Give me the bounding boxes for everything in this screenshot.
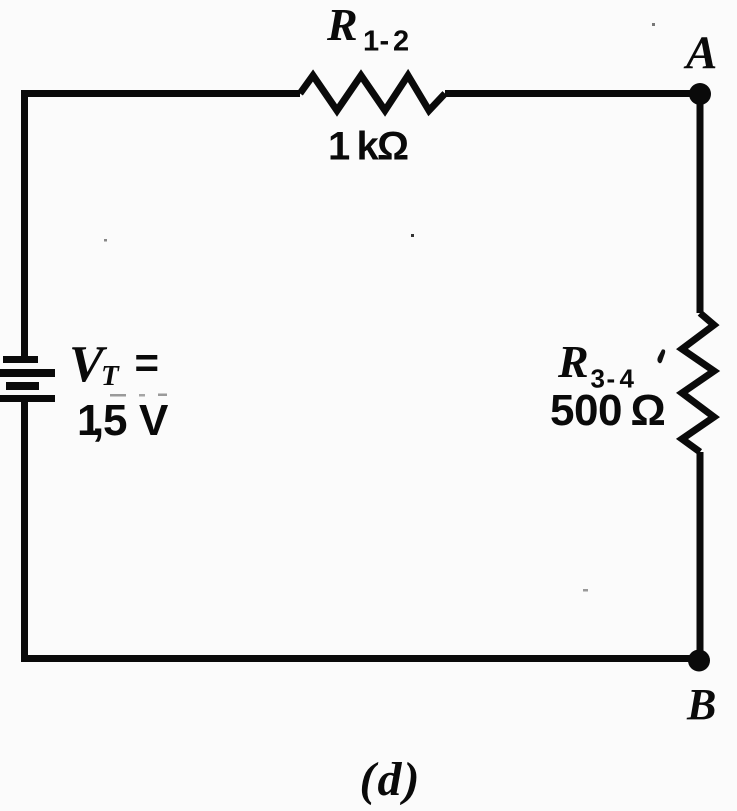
svg-text:500Ω: 500Ω: [550, 386, 666, 435]
svg-text:R: R: [557, 336, 589, 387]
svg-text:B: B: [686, 680, 716, 729]
svg-text:1,5V: 1,5V: [77, 396, 169, 445]
svg-text:=: =: [135, 339, 160, 386]
svg-text:(d): (d): [360, 753, 422, 806]
svg-text:A: A: [683, 27, 717, 79]
svg-text:1-2: 1-2: [363, 26, 409, 58]
svg-text:T: T: [101, 360, 120, 392]
svg-text:R: R: [326, 0, 358, 50]
svg-text:1kΩ: 1kΩ: [328, 125, 409, 169]
